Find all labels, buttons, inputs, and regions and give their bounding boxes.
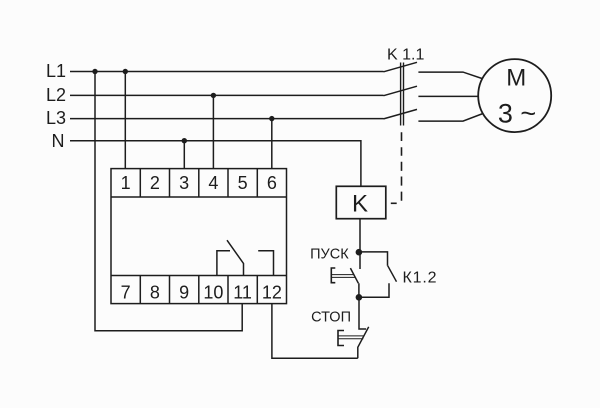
svg-text:L2: L2: [46, 85, 66, 105]
svg-text:7: 7: [121, 282, 131, 302]
svg-text:К1.2: К1.2: [403, 270, 438, 287]
svg-text:2: 2: [150, 173, 160, 193]
svg-text:L1: L1: [46, 61, 66, 81]
svg-text:3: 3: [179, 173, 189, 193]
svg-text:3 ~: 3 ~: [498, 99, 536, 129]
svg-text:10: 10: [203, 282, 223, 302]
svg-text:9: 9: [179, 282, 189, 302]
svg-text:СТОП: СТОП: [311, 310, 351, 326]
svg-text:M: M: [506, 64, 526, 91]
svg-text:11: 11: [233, 282, 252, 302]
svg-text:5: 5: [238, 173, 248, 193]
svg-text:8: 8: [150, 282, 160, 302]
svg-text:K 1.1: K 1.1: [387, 47, 424, 64]
svg-text:N: N: [52, 131, 65, 151]
svg-text:12: 12: [262, 282, 282, 302]
svg-text:1: 1: [121, 173, 131, 193]
svg-text:4: 4: [208, 173, 218, 193]
svg-text:6: 6: [267, 173, 277, 193]
svg-text:L3: L3: [46, 108, 66, 128]
svg-text:K: K: [352, 191, 368, 218]
svg-text:ПУСК: ПУСК: [310, 246, 349, 262]
